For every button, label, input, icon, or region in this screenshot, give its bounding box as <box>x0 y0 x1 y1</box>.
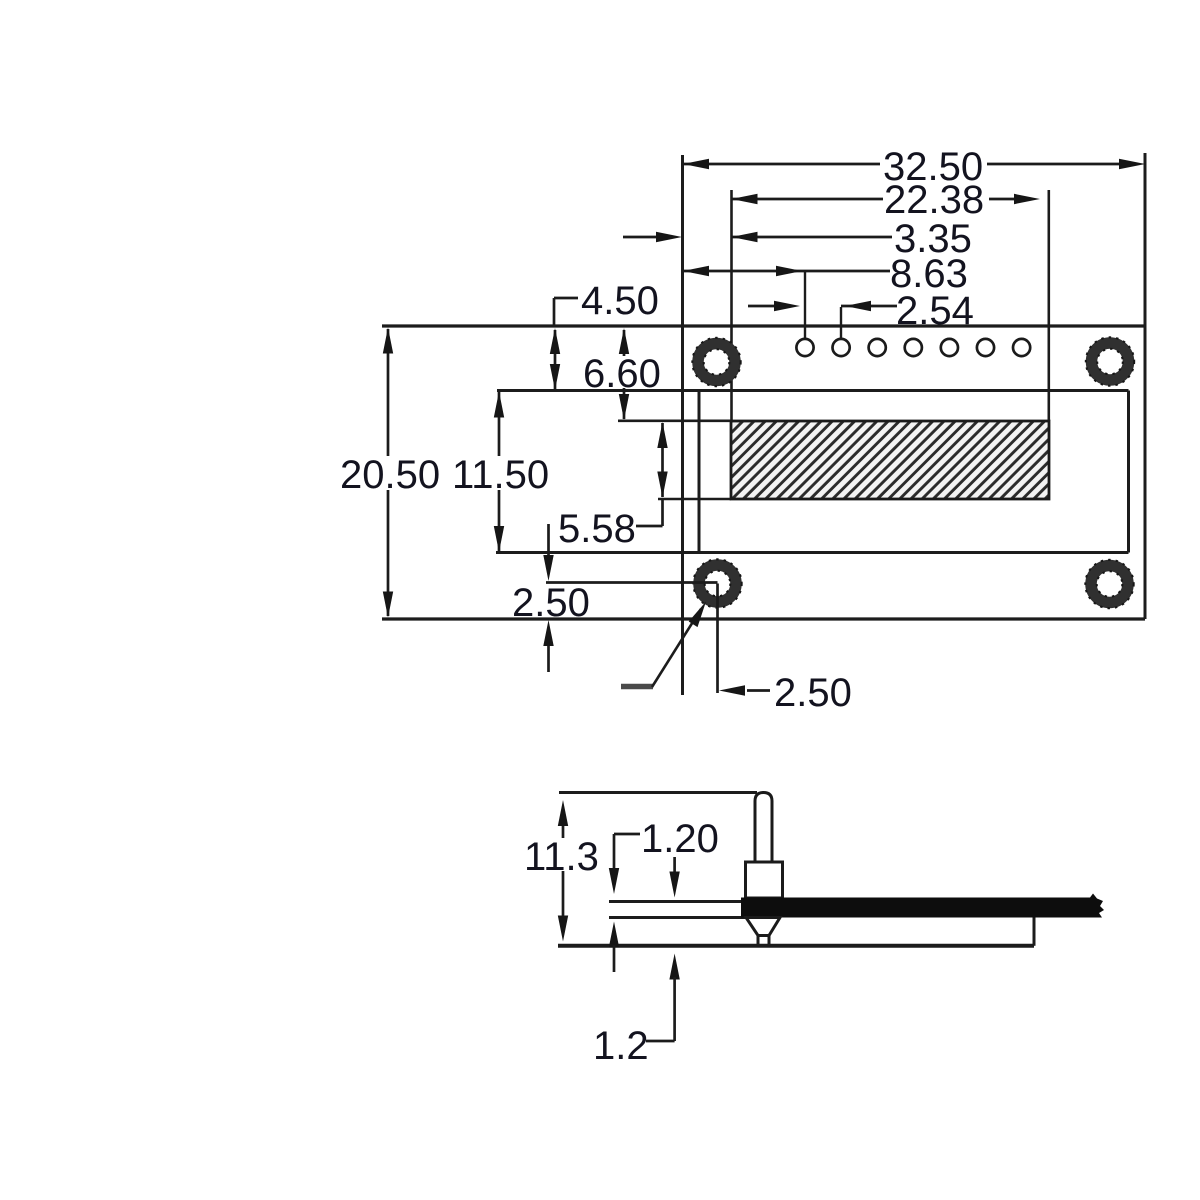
svg-text:5.58: 5.58 <box>558 507 636 551</box>
svg-text:11.3: 11.3 <box>524 835 599 879</box>
svg-text:2.50: 2.50 <box>512 581 590 625</box>
svg-text:11.50: 11.50 <box>452 453 549 497</box>
svg-text:20.50: 20.50 <box>340 453 440 497</box>
svg-text:22.38: 22.38 <box>884 178 984 222</box>
svg-text:4.50: 4.50 <box>581 279 659 323</box>
svg-text:2.50: 2.50 <box>774 671 852 715</box>
svg-text:2.54: 2.54 <box>896 289 974 333</box>
svg-text:1.2: 1.2 <box>593 1024 649 1068</box>
svg-text:1.20: 1.20 <box>641 817 719 861</box>
svg-text:6.60: 6.60 <box>583 352 661 396</box>
